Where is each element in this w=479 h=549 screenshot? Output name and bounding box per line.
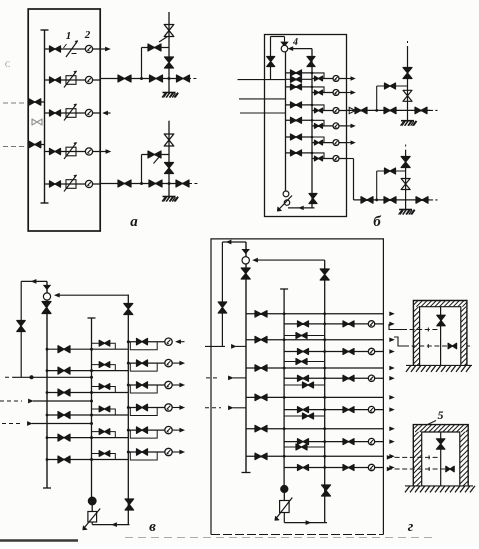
riser valve [164,25,174,37]
left standpipe panel b [270,37,272,80]
row 2 flow arrow panel v [172,362,180,364]
third riser panel g [324,260,326,522]
row 6 valve bypass loop [130,452,157,460]
bottom chamber wall [413,425,468,486]
faint middle valve on panel a left edge [32,119,42,125]
standpipe valve [267,57,275,67]
junction pair 3 supply at third riser panel g [323,367,326,370]
riser pipe [168,12,170,93]
pair 3 outlet valve panel g [343,375,354,381]
junction row 1 at left bus panel v [46,348,49,351]
third riser bottom valve [125,499,134,510]
pair 1 mid valve panel g [298,321,309,327]
pump circle lower panel b [284,200,289,205]
top group main line [347,109,431,111]
valve row 4 panel a [50,148,61,154]
left bus bottom cap [43,487,51,489]
group main line [100,183,189,185]
pair 4 metering line panel g [284,409,383,411]
svg-text:а: а [130,214,138,230]
pair 5 supply line panel g [246,428,383,430]
row 5 flow indicator panel v [165,426,172,433]
chamber feed line 4 [387,467,391,471]
row 5 supply valve panel v [58,434,70,441]
left bus panel g [245,242,247,473]
pair 6 supply line panel g [246,455,383,457]
return loop standpipe [20,281,22,377]
junction row 2 at mid bus panel v [90,369,93,372]
valve row 3 panel a [50,110,61,116]
bottom return line panel g [284,522,327,524]
enclosure box of panel b [265,35,347,217]
pump circle upper panel b [283,191,289,197]
throttle 1 (slash arrow) row 1 [66,41,78,57]
row 3 open flow arrow panel b [349,107,355,113]
junction pair 1 supply at mid bus panel g [283,312,286,315]
adjustable restrictor row 2 panel a [66,76,76,85]
pair 1 metering outlet arrow [390,322,394,326]
row 2 check valve [99,362,110,368]
valve row 5 panel a [50,181,61,187]
junction row 4 at right bus panel b [311,119,314,122]
row 3 flow arrow panel v [172,384,180,386]
inlet line 2 panel b [239,98,286,100]
top group branch valve [385,83,396,89]
bottom group branch downcomer [376,171,378,200]
row 5 outlet line panel b [312,142,347,144]
right bus panel b [311,49,313,208]
row 2 outlet line panel b [312,92,347,94]
pair 2 metering line panel g [284,351,383,353]
row 4 flow indicator panel b [333,123,339,129]
outlet arrow row 1 panel a [100,48,106,50]
bottom chamber valve [436,439,445,449]
adjustable restrictor row 4 panel a [66,147,76,156]
row 4 inlet line panel b [286,119,313,121]
pair 3 mid valve panel g [298,375,309,381]
row 5 outlet line panel v [128,429,165,431]
outlet arrow row 2 panel b [347,92,352,94]
outlet arrow row 4 panel a [100,151,106,153]
row 1 jog link [312,73,324,79]
pair 4 supply outlet arrow [390,396,394,400]
row 6 supply valve panel v [58,456,70,463]
pump drive arrow panel b [278,196,292,211]
return loop valve [17,321,25,332]
top header link [271,36,285,38]
mid bus top cap panel g [280,288,288,290]
row 6 check bypass line [92,454,116,460]
row 2 outlet valve panel v [137,360,148,367]
outlet arrow row 1 panel b [347,78,352,80]
pair 3 supply outlet arrow [390,366,394,370]
junction pair 2 metering at third riser panel g [323,350,326,353]
top group branch line [377,85,408,87]
row 5 outlet valve panel b [315,140,323,145]
drain ground [163,92,176,94]
junction row 4 at left bus panel v [46,414,49,417]
inlet line 3 panel b [240,112,286,114]
row 6 flow indicator panel b [333,156,339,162]
bottom chamber branch valve [446,466,454,472]
row 2 flow indicator panel v [165,359,172,366]
riser lower valve [165,57,174,68]
row 2 inlet valve panel b [291,84,302,90]
pair 1 supply valve panel g [255,311,267,318]
mid bus top cap [88,317,96,319]
top group main valve 2 [384,107,396,114]
left bus panel v [46,281,48,488]
pair 3 metering line panel g [284,377,383,379]
pair 5 outlet valve panel g [343,439,354,445]
pair 4 flow indicator panel g [368,406,374,412]
chamber feed line 1 [402,329,441,331]
pair 5 metering line panel g [284,441,383,443]
junction pair 1 metering at third riser panel g [323,323,326,326]
pressure regulator panel g [242,249,249,253]
return loop top line panel v [21,280,47,282]
junction pair 3 metering at third riser panel g [323,377,326,380]
junction row 6 at left bus panel v [46,458,49,461]
row 1 outlet line panel b [312,78,347,80]
pump suction line panel b [288,207,315,209]
row 2 outlet valve panel b [315,90,323,95]
row 1 supply line panel v [47,348,128,350]
junction row 2 at right bus panel b [311,86,314,89]
row 4 inlet valve panel b [291,117,302,123]
junction pair 4 metering at third riser panel g [323,408,326,411]
top group branch downcomer [376,86,378,110]
interconnect stub line panel g [284,335,325,337]
bottom group main valve 1 [361,197,373,204]
third riser top valve panel g [320,269,329,280]
junction row 6 at mid bus panel v [90,458,93,461]
pair 2 supply line panel g [246,339,383,341]
junction pair 2 supply at third riser panel g [323,338,326,341]
mid bus panel g [283,289,285,486]
top chamber valve [437,315,445,326]
flow indicator row 5 panel a [85,180,92,187]
row 4 valve bypass loop [130,408,157,416]
inlet line 3 panel g [205,407,221,409]
junction row 4 at mid bus panel v [90,414,93,417]
outlet arrow row 3 panel a [103,111,108,115]
jog link to chamber line 2 [394,337,404,346]
row 1 extra valve panel b [286,78,313,80]
junction row 4 at third riser panel v [127,406,130,409]
junction row 1 at mid bus panel v [90,348,93,351]
pair 1 supply outlet arrow [390,312,394,316]
pair 3 flow indicator panel g [368,375,374,381]
pair 2 supply valve panel g [255,336,267,343]
bottom group main line [354,199,431,201]
dash-dot supply stub upper left [3,102,27,104]
junction riser bottom group a [168,182,171,185]
row 4 jog link [312,120,324,126]
junction row 5 at right bus panel b [311,136,314,139]
main line valve 3 [176,180,189,187]
row 2 jog link [312,87,324,93]
main line valve 1 [118,180,131,187]
row 4 check bypass line [92,409,116,415]
row 3 inlet line panel b [286,104,313,106]
row 5 inlet valve panel b [291,134,302,140]
third riser top valve [124,304,133,315]
main line valve 3 [177,75,190,82]
junction branch top group b [375,109,378,112]
junction row 3 at third riser panel v [127,384,130,387]
row 1 inlet valve panel b [291,70,302,76]
row 1 check bypass line [92,343,116,349]
circulation pump panel v [91,501,93,512]
riser valve [164,134,174,146]
pair 4 outlet valve panel g [343,407,354,413]
row 6 check valve [99,451,110,457]
row 4 supply valve panel v [58,412,70,419]
pair 1 outlet valve panel g [343,321,354,327]
junction pair 2 supply at mid bus panel g [283,338,286,341]
pair 4 supply valve panel g [255,394,267,401]
junction pair 1 supply at third riser panel g [323,312,326,315]
interconnect stub line panel g [284,361,325,363]
row 3 jog link [312,105,324,111]
pair 6 supply outlet arrow [390,455,394,459]
mid bus panel v [91,318,93,497]
junction pair 3 supply at mid bus panel g [283,367,286,370]
row 2 inlet line panel b [286,86,313,88]
third riser bottom valve panel g [322,485,331,496]
main line valve 2 [149,180,162,187]
bottom group drain [399,209,412,211]
interconnect stub valve panel g [303,413,314,419]
pair 6 flow indicator panel g [368,464,374,470]
bypass downcomer [141,155,143,184]
inlet line A panel v [5,376,13,378]
label 1 leader slash [64,44,67,48]
row 1 outlet valve panel v [137,338,148,345]
row 2 outlet line panel v [128,362,165,364]
top chamber outlet stub [467,345,472,347]
left bus valve [42,302,51,314]
left bus valve panel g [241,268,250,279]
branch line row 3 panel a [45,112,101,114]
valve row 2 panel a [50,77,61,83]
row 5 check bypass line [92,432,116,438]
flow indicator row 3 panel a [85,109,92,116]
row 5 outlet valve panel v [137,427,148,434]
return loop standpipe panel g [221,242,223,346]
top group main valve 1 [355,107,367,114]
pair 2 flow indicator panel g [368,348,374,354]
pair 6 outlet valve panel g [343,465,354,471]
sense line into regulator panel g [253,258,258,262]
flow indicator row 2 panel a [85,76,92,83]
top group riser panel b [407,46,409,121]
bottom group main valve 2 [384,197,396,204]
interconnect stub line panel g [284,415,325,417]
pump outlet link panel v [91,522,93,525]
row 6 flow indicator panel v [165,448,172,455]
interconnect stub line panel g [284,446,325,448]
interconnect stub valve panel g [296,444,307,450]
main line valve 1 [118,75,131,82]
junction pair 5 metering at third riser panel g [323,440,326,443]
row 3 outlet line panel b [312,110,347,112]
inlet line C panel v [2,423,21,425]
row 3 check bypass line [92,387,116,393]
row 2 check bypass line [92,365,116,371]
row 6 outlet line panel v [128,451,165,453]
junction row 5 at mid bus panel v [90,436,93,439]
junction row 6 at third riser panel v [127,451,130,454]
junction row 2 at left bus panel v [46,369,49,372]
pair 6 mid valve panel g [298,465,309,471]
row 5 flow arrow panel v [172,429,180,431]
junction row 3 at left bus panel v [46,391,49,394]
row 2 flow indicator panel b [333,90,339,96]
junction riser top group a [168,77,171,80]
top chamber wall [413,301,467,366]
row 1 check valve [99,340,110,346]
row 5 jog link [312,137,324,143]
svg-text:С: С [5,60,10,69]
svg-text:4: 4 [292,37,298,48]
row 6 outlet valve panel b [315,156,323,161]
flow indicator row 1 panel a [85,45,92,52]
pair 2 metering outlet arrow [390,350,394,354]
riser lower valve [165,163,174,174]
right bus top valve [307,57,315,67]
row 4 outlet line panel v [128,407,165,409]
row 6 inlet line panel b [286,152,313,154]
row 5 valve bypass loop [130,430,157,438]
pressure regulator panel v [44,285,51,289]
top group safety valve [403,90,412,101]
bottom return line panel v [92,524,129,526]
row 3 supply valve panel v [58,389,70,396]
valve row 1 panel a [50,46,61,52]
row 4 supply line panel v [47,414,128,416]
row 3 valve bypass loop [130,385,157,393]
enclosure box of panel a [28,9,100,231]
junction inlet at mid bus panel v [90,376,93,379]
row 3 flow indicator panel v [165,381,172,388]
pair 6 metering outlet arrow [390,466,394,470]
bypass downcomer [141,48,143,79]
interconnect stub valve panel g [296,333,307,339]
pair 5 mid valve panel g [298,439,309,445]
pair 4 supply line panel g [246,396,383,398]
outlet arrow row 5 panel b [347,142,352,144]
row 4 outlet valve panel b [315,124,323,129]
scan streak bottom middle [125,537,437,539]
bottom group riser valve [401,157,410,168]
row 1 outlet valve panel b [315,76,323,81]
supply header bus of panel a [44,30,46,203]
row 3 flow indicator panel b [333,108,339,114]
chamber feed line 3 [387,456,391,460]
pair 4 metering outlet arrow [390,408,394,412]
row 3 check valve [99,384,110,390]
adjustable restrictor row 3 panel a [66,109,76,118]
inlet line 2 panel g [206,377,220,379]
pair 5 flow indicator panel g [368,438,374,444]
bottom group branch valve [385,168,396,174]
pair 1 supply line panel g [246,313,383,315]
pair 4 mid valve panel g [298,407,309,413]
top chamber floor hatch [406,364,472,366]
junction branch bottom group b [375,199,378,202]
junction pair 5 supply at third riser panel g [323,427,326,430]
row 3 outlet valve panel b [315,108,323,113]
scan streak bottom left [0,539,78,542]
row 5 flow indicator panel b [333,140,339,146]
junction pair 5 supply at mid bus panel g [283,427,286,430]
junction row 1 at right bus panel b [311,72,314,75]
pair 5 supply valve panel g [255,425,267,432]
junction row 2 at third riser panel v [127,362,130,365]
riser pipe [168,121,170,197]
row 1 outlet line panel v [128,341,165,343]
bypass valve actuator slash [159,37,168,43]
junction row 6 at right bus panel b [311,152,314,155]
drain ground [163,196,176,198]
bottom group branch line [377,170,406,172]
junction row 1 at third riser panel v [127,340,130,343]
row 2 valve bypass loop [130,363,157,371]
pair 2 outlet valve panel g [343,349,354,355]
row 3 inlet valve panel b [291,102,302,108]
inlet line B panel v [0,400,22,402]
row 1 flow indicator panel v [165,338,172,345]
return loop valve panel g [218,302,227,313]
bypass branch line [142,154,170,156]
group main line [100,78,188,80]
pair 5 supply outlet arrow [390,427,394,431]
top chamber standpipe [440,307,442,366]
svg-text:б: б [373,214,381,230]
junction pair 6 supply at mid bus panel g [283,455,286,458]
junction pair 6 metering at third riser panel g [323,466,326,469]
jog link to chamber line 1 [389,324,402,330]
svg-text:г: г [408,519,414,535]
inlet line 1 panel g [205,345,225,347]
row 5 supply line panel v [47,437,128,439]
bypass branch valve [148,44,161,51]
pair 3 supply valve panel g [255,365,267,371]
inlet valve lower on panel a left edge [28,144,44,146]
header top cap [41,29,49,31]
bypass branch line [142,47,170,49]
row 4 outlet line panel b [312,125,347,127]
top chamber branch valve [448,343,457,349]
top group drain [401,120,414,122]
row 5 check valve [99,429,110,435]
interconnect stub line panel g [284,384,325,386]
adjustable restrictor row 5 panel a [66,180,76,189]
regulator sense arrow [288,47,293,51]
pair 3 supply line panel g [246,367,383,369]
bottom group main valve 3 [416,197,428,204]
row 6 inlet valve panel b [291,150,302,156]
sense line into regulator [55,293,60,297]
branch line row 1 panel a [45,48,101,50]
bottom chamber standpipe [440,432,442,486]
junction row 3 at mid bus panel v [90,391,93,394]
branch line row 5 panel a [45,183,101,185]
row 6 outlet valve panel v [137,449,148,455]
svg-text:в: в [149,519,156,535]
